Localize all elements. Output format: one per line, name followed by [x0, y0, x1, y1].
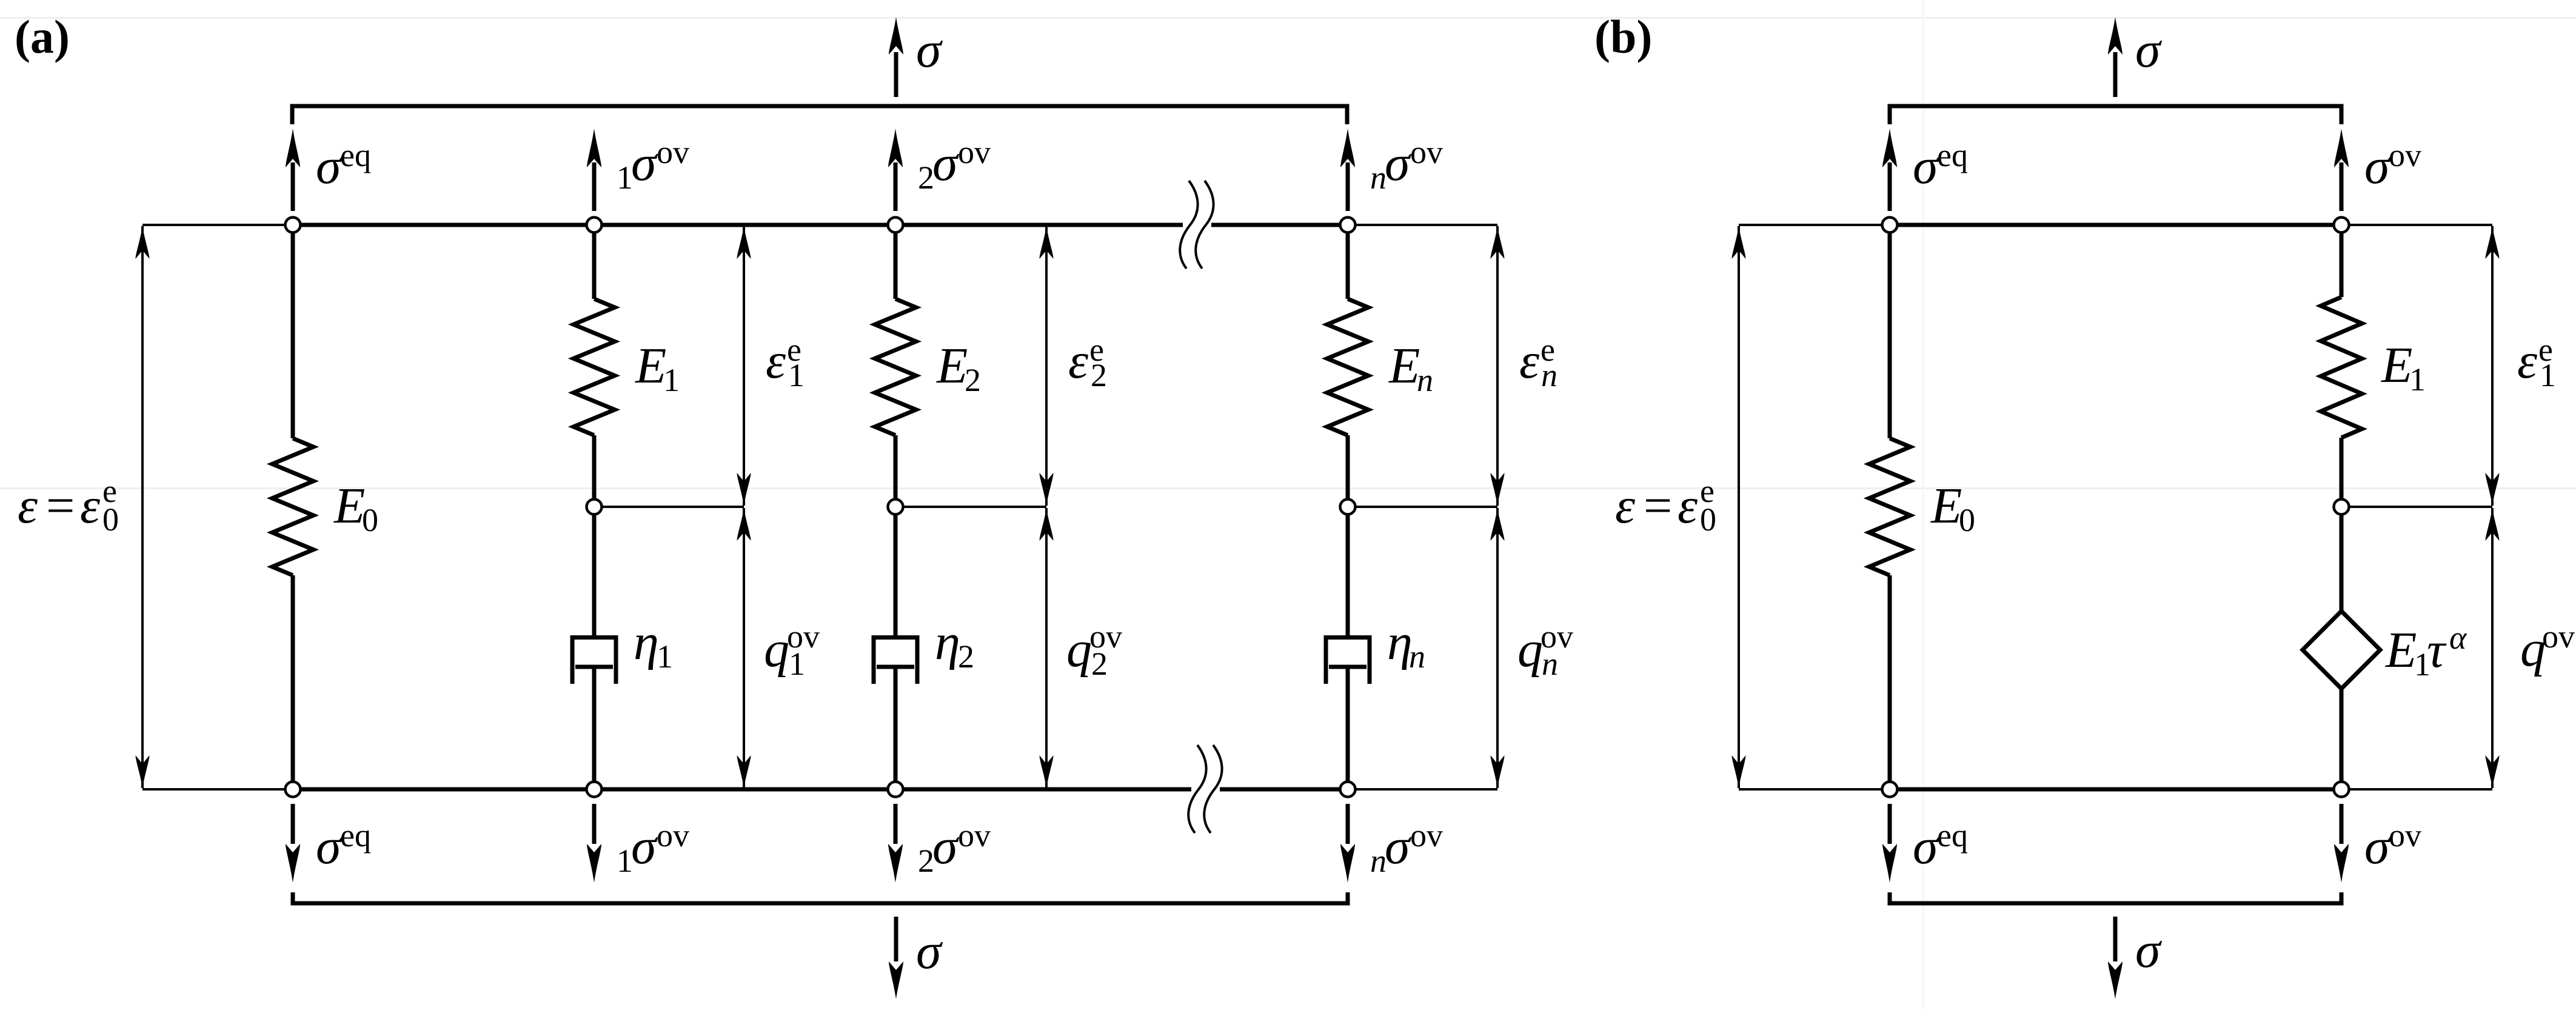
svg-text:ov: ov	[1410, 817, 1443, 854]
wire bottom rail thin right	[1348, 788, 1497, 791]
svg-text:(a): (a)	[15, 10, 70, 63]
node top branch1 (b)	[2334, 218, 2349, 233]
svg-text:1: 1	[617, 159, 633, 196]
label sigma-eq bottom	[316, 817, 371, 875]
wire top rail thin right	[1348, 224, 1497, 226]
break marks top rail	[1180, 181, 1213, 269]
svg-text:ε: ε	[1519, 333, 1540, 389]
bottom bracket (a)	[293, 892, 1348, 903]
node bottom E0 (b)	[1882, 782, 1898, 797]
wire branch2 top	[894, 225, 898, 299]
svg-text:σ: σ	[916, 923, 943, 980]
node bottom branchn	[1340, 782, 1356, 797]
node top branchn	[1340, 218, 1356, 233]
label sigma-eq top (b)	[1913, 137, 1968, 195]
svg-text:2: 2	[918, 843, 934, 879]
svg-text:η: η	[634, 614, 659, 670]
svg-text:ov: ov	[657, 817, 689, 854]
label E1 (b)	[2381, 337, 2426, 398]
node bottom branch1 (b)	[2334, 782, 2349, 797]
label eta2	[935, 614, 974, 675]
svg-text:σ: σ	[2135, 922, 2163, 978]
svg-text:2: 2	[918, 159, 934, 196]
wire branch1 mid upper	[592, 435, 597, 635]
arrow 2sigma-ov bottom	[888, 804, 903, 883]
arrow sigma-eq bottom	[286, 804, 300, 883]
label sigma-ov top (b)	[2364, 137, 2421, 195]
svg-text:eq: eq	[340, 817, 371, 854]
svg-text:eq: eq	[1937, 137, 1968, 173]
svg-text:n: n	[1417, 362, 1433, 398]
label 1sigma-ov top	[617, 134, 689, 196]
svg-text:σ: σ	[631, 818, 658, 875]
svg-text:E: E	[936, 338, 968, 394]
svg-text:ov: ov	[2389, 137, 2421, 173]
node top E0 (b)	[1882, 218, 1898, 233]
svg-text:q: q	[764, 621, 789, 678]
wire bottom rail thin left	[142, 788, 293, 791]
wire top rail thin left	[142, 224, 293, 226]
svg-text:σ: σ	[2364, 138, 2392, 195]
svg-text:eq: eq	[340, 137, 371, 173]
svg-text:q: q	[1517, 621, 1543, 678]
wire branch1 top	[592, 225, 597, 299]
svg-text:ε: ε	[1678, 478, 1698, 534]
svg-text:1: 1	[789, 646, 805, 682]
measure line epsilon (a)	[136, 225, 293, 789]
svg-text:q: q	[1066, 621, 1092, 678]
label sigma bottom (b)	[2135, 922, 2163, 978]
wire top rail thick right	[1211, 223, 1348, 227]
svg-text:ov: ov	[1410, 134, 1443, 170]
label q2ov	[1066, 618, 1122, 682]
arrow sigma bottom (a)	[889, 917, 903, 999]
svg-text:n: n	[1409, 638, 1425, 675]
svg-text:ε: ε	[2517, 333, 2538, 389]
svg-text:ov: ov	[958, 817, 991, 854]
svg-text:1: 1	[788, 357, 805, 393]
node bottom branch2	[888, 782, 903, 797]
svg-text:α: α	[2449, 620, 2467, 656]
measure q1ov	[737, 508, 751, 788]
measure qov (b)	[2486, 508, 2500, 788]
spring E0 (b)	[1869, 438, 1910, 575]
spring E1	[574, 299, 615, 435]
label sigma-eq top	[316, 137, 371, 195]
svg-text:2: 2	[958, 638, 974, 675]
svg-text:E: E	[2381, 337, 2412, 393]
spring En	[1327, 299, 1368, 435]
label epsilon1e (b)	[2517, 332, 2556, 393]
wire mid link branchn	[1348, 506, 1497, 508]
label 2sigma-ov bottom	[918, 817, 991, 879]
svg-text:(b): (b)	[1594, 10, 1652, 63]
dashpot eta1	[572, 638, 616, 684]
svg-text:2: 2	[1091, 646, 1108, 682]
node top E0	[286, 218, 301, 233]
svg-text:ov: ov	[2542, 618, 2575, 655]
node bottom branch1	[587, 782, 602, 797]
svg-text:σ: σ	[1385, 818, 1412, 875]
label epsilon = epsilon0e (b)	[1615, 473, 1716, 538]
wire bottom rail thick (b)	[1890, 787, 2341, 792]
label nsigma-ov bottom	[1370, 817, 1443, 879]
svg-text:2: 2	[965, 362, 981, 398]
svg-text:σ: σ	[631, 135, 658, 192]
label sigma top (a)	[916, 22, 943, 78]
svg-text:n: n	[1542, 646, 1558, 682]
arrow sigma-eq bottom (b)	[1882, 804, 1897, 883]
label epsilon1e	[766, 332, 805, 393]
spring E0	[272, 438, 313, 575]
wire E0 bottom	[291, 575, 295, 789]
arrow nsigma-ov top	[1340, 129, 1355, 211]
wire bottom rail thin left (b)	[1739, 788, 1890, 791]
wire branch1 top (b)	[2340, 225, 2344, 297]
svg-text:σ: σ	[1385, 135, 1412, 192]
label sigma-eq bottom (b)	[1913, 817, 1968, 875]
label sigma-ov bottom (b)	[2364, 817, 2421, 875]
node mid branch1	[587, 500, 602, 515]
label epsilon = epsilon0e (a)	[18, 473, 119, 538]
arrow sigma-eq top (b)	[1882, 129, 1897, 211]
label E2	[936, 338, 981, 398]
label q1ov	[764, 618, 820, 682]
svg-text:E: E	[2385, 622, 2417, 678]
label nsigma-ov top	[1370, 134, 1443, 196]
svg-text:2: 2	[1091, 357, 1107, 393]
svg-text:τ: τ	[2427, 622, 2447, 678]
spring E2	[875, 299, 916, 435]
wire branchn top	[1346, 225, 1350, 299]
arrow 1sigma-ov bottom	[587, 804, 601, 883]
svg-text:σ: σ	[316, 138, 343, 195]
svg-text:ε: ε	[18, 478, 38, 534]
figure label (b)	[1594, 10, 1652, 63]
top bracket (b)	[1890, 106, 2341, 124]
faint page rule middle	[0, 487, 2576, 489]
faint page rule top	[0, 17, 2576, 19]
label etan	[1387, 614, 1425, 675]
wire branch1 bottom (b)	[2340, 689, 2344, 789]
arrow sigma bottom (b)	[2108, 917, 2123, 999]
svg-text:0: 0	[1700, 501, 1716, 538]
wire top rail thick	[293, 223, 1183, 227]
svg-text:n: n	[1370, 159, 1387, 196]
wire E0 bottom (b)	[1888, 575, 1892, 789]
arrow sigma-ov bottom (b)	[2334, 804, 2349, 883]
svg-text:ov: ov	[2389, 817, 2421, 854]
arrow sigma top (a)	[889, 17, 903, 97]
measure qnov	[1491, 508, 1505, 788]
arrow 2sigma-ov top	[888, 129, 903, 211]
svg-text:1: 1	[2540, 357, 2556, 393]
measure epsilon2e	[1040, 226, 1054, 506]
arrow sigma top (b)	[2108, 17, 2123, 97]
svg-text:ε: ε	[766, 333, 786, 389]
spring E1 (b)	[2321, 297, 2362, 438]
svg-text:σ: σ	[932, 135, 960, 192]
dashpot etan	[1326, 638, 1370, 684]
wire branchn mid upper	[1346, 435, 1350, 635]
wire top rail thin left (b)	[1739, 224, 1890, 226]
svg-text:=: =	[46, 478, 75, 534]
node mid branch1 (b)	[2334, 500, 2349, 515]
label En	[1388, 338, 1433, 398]
svg-text:σ: σ	[932, 818, 960, 875]
label sigma bottom (a)	[916, 923, 943, 980]
svg-text:0: 0	[362, 502, 378, 538]
label epsilonne	[1519, 332, 1557, 393]
svg-text:n: n	[1370, 843, 1387, 879]
label 2sigma-ov top	[918, 134, 991, 196]
svg-text:σ: σ	[2364, 818, 2392, 875]
wire branch2 mid upper	[894, 435, 898, 635]
wire E0 top (b)	[1888, 225, 1892, 438]
wire bottom rail thick	[293, 787, 1191, 792]
label E1-tau-alpha	[2385, 620, 2467, 683]
measure epsilonne	[1491, 226, 1505, 506]
measure epsilon1e (b)	[2486, 226, 2500, 506]
dashpot eta2	[874, 638, 917, 684]
node top branch2	[888, 218, 903, 233]
wire top rail thin right (b)	[2341, 224, 2492, 226]
wire bottom rail thin right (b)	[2341, 788, 2492, 791]
svg-text:η: η	[935, 614, 960, 670]
svg-text:eq: eq	[1937, 817, 1968, 854]
wire branch2 bottom	[894, 667, 898, 789]
svg-text:1: 1	[2409, 361, 2426, 398]
svg-text:0: 0	[102, 501, 119, 538]
svg-text:n: n	[1541, 357, 1557, 393]
measure line epsilon (b)	[1732, 226, 1890, 789]
label qov (b)	[2520, 618, 2575, 677]
node bottom E0	[286, 782, 301, 797]
svg-text:ε: ε	[1068, 333, 1089, 389]
faint column rule	[1922, 0, 1924, 1010]
wire top rail thick (b)	[1890, 223, 2341, 227]
measure q2ov	[1040, 508, 1054, 788]
wire E0 top	[291, 225, 295, 438]
label sigma top (b)	[2135, 22, 2163, 78]
svg-text:0: 0	[1959, 502, 1975, 538]
wire branchn bottom	[1346, 667, 1350, 789]
arrow sigma-ov top (b)	[2334, 129, 2349, 211]
svg-text:σ: σ	[2135, 22, 2163, 78]
label epsilon2e	[1068, 332, 1107, 393]
springpot E1-tau	[2303, 611, 2380, 689]
wire bottom rail thick right	[1220, 787, 1348, 792]
svg-text:=: =	[1644, 478, 1672, 534]
svg-text:σ: σ	[916, 22, 943, 78]
svg-text:1: 1	[657, 638, 673, 675]
node top branch1	[587, 218, 602, 233]
label qnov	[1517, 618, 1573, 682]
svg-text:E: E	[1388, 338, 1420, 394]
svg-text:E: E	[1930, 478, 1962, 534]
svg-text:ov: ov	[958, 134, 991, 170]
wire mid link branch1	[594, 506, 744, 508]
wire mid link branch2	[895, 506, 1046, 508]
wire branch1 mid (b)	[2340, 438, 2344, 612]
wire branch1 bottom	[592, 667, 597, 789]
label 1sigma-ov bottom	[617, 817, 689, 879]
label E1	[635, 338, 680, 398]
label E0 (b)	[1930, 478, 1975, 538]
node mid branchn	[1340, 500, 1356, 515]
svg-text:1: 1	[617, 843, 633, 879]
measure epsilon1e	[737, 226, 751, 506]
node mid branch2	[888, 500, 903, 515]
arrow nsigma-ov bottom	[1340, 804, 1355, 883]
top bracket (a)	[292, 106, 1347, 124]
break marks bottom rail	[1188, 745, 1222, 833]
figure label (a)	[15, 10, 70, 63]
svg-text:ε: ε	[80, 478, 101, 534]
svg-text:σ: σ	[1913, 818, 1940, 875]
label eta1	[634, 614, 673, 675]
svg-text:ε: ε	[1615, 478, 1636, 534]
arrow 1sigma-ov top	[587, 129, 601, 211]
svg-text:ov: ov	[657, 134, 689, 170]
label E0	[333, 478, 378, 538]
bottom bracket (b)	[1890, 892, 2341, 903]
svg-text:E: E	[635, 338, 666, 394]
wire mid link (b)	[2341, 506, 2492, 508]
svg-text:σ: σ	[316, 818, 343, 875]
svg-text:1: 1	[663, 362, 680, 398]
svg-text:σ: σ	[1913, 138, 1940, 195]
svg-text:E: E	[333, 478, 365, 534]
arrow sigma-eq top	[286, 129, 300, 211]
